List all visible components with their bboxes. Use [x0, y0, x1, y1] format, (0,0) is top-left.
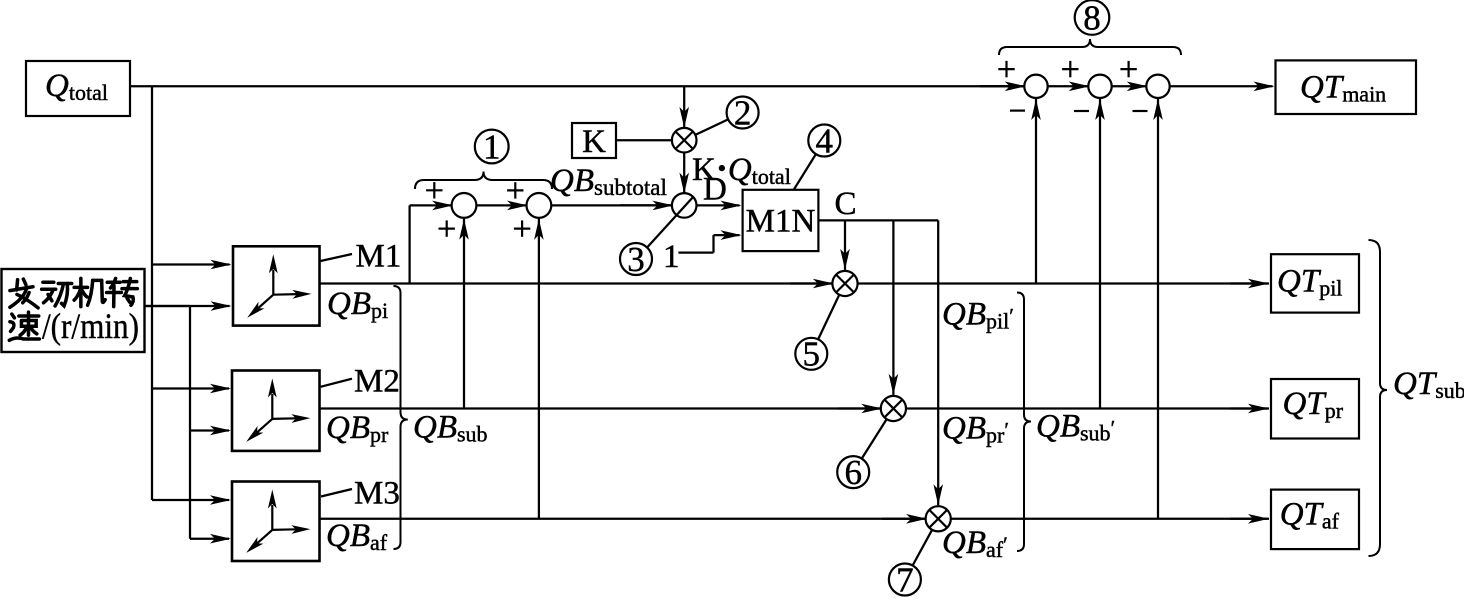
- svg-text:4: 4: [816, 121, 834, 160]
- svg-text:M1N: M1N: [746, 204, 816, 240]
- svg-text:2: 2: [734, 93, 752, 132]
- svg-text:K: K: [582, 124, 606, 160]
- svg-text:8: 8: [1083, 0, 1101, 37]
- svg-text:6: 6: [844, 453, 862, 492]
- svg-text:D: D: [703, 172, 727, 208]
- svg-text:M3: M3: [354, 476, 400, 512]
- svg-text:1: 1: [663, 239, 680, 275]
- svg-text:M1: M1: [356, 239, 402, 275]
- svg-text:M2: M2: [354, 364, 400, 400]
- svg-text:5: 5: [803, 335, 821, 374]
- svg-text:7: 7: [896, 560, 914, 599]
- svg-text:C: C: [835, 186, 857, 222]
- svg-text:3: 3: [627, 240, 645, 279]
- svg-text:1: 1: [483, 127, 501, 166]
- svg-text:/(r/min): /(r/min): [42, 306, 139, 346]
